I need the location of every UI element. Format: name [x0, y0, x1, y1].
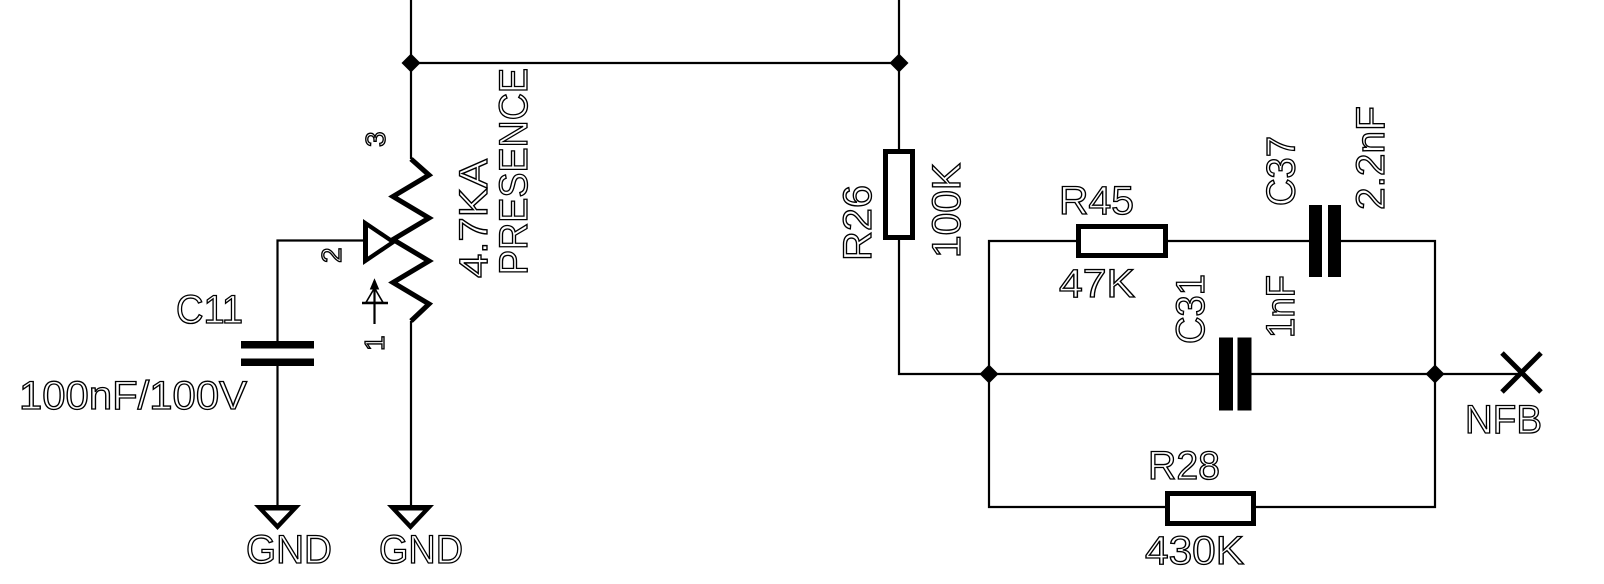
junction dot C (989,374) [980, 365, 999, 384]
wire pot pin2 to C11 [278, 241, 364, 342]
svg-text:R28: R28 [1148, 444, 1220, 488]
wire top-left vertical [410, 0, 412, 159]
wire top branch right [1341, 241, 1435, 374]
svg-text:3: 3 [360, 131, 391, 147]
wire R26 bottom to middle junction [899, 240, 989, 374]
svg-text:C11: C11 [176, 288, 243, 332]
svg-text:47K: 47K [1059, 262, 1135, 306]
wire top-right vertical [898, 0, 900, 149]
capacitor C37 plates [1309, 205, 1341, 277]
svg-text:100nF/100V: 100nF/100V [19, 374, 247, 418]
svg-text:C37: C37 [1260, 136, 1304, 206]
wire middle branch right [1251, 373, 1521, 375]
svg-text:GND: GND [379, 528, 463, 572]
wire middle branch left [989, 373, 1219, 375]
wire bottom branch left [989, 374, 1165, 507]
node NFB pin marker X [1502, 353, 1541, 392]
ground symbol left [254, 505, 301, 530]
svg-text:100K: 100K [925, 163, 969, 258]
wire top horizontal [411, 62, 899, 64]
svg-text:4.7KA: 4.7KA [452, 159, 496, 278]
ground symbol right [387, 505, 434, 530]
junction dot D (1435,374) [1426, 365, 1445, 384]
potentiometer taper marker [362, 280, 388, 325]
junction dot B (899,63) [890, 54, 909, 73]
svg-text:NFB: NFB [1465, 398, 1542, 442]
svg-text:R26: R26 [836, 185, 880, 261]
junction dot A (411,63) [402, 54, 421, 73]
resistor R45 body [1079, 227, 1166, 256]
svg-text:R45: R45 [1059, 179, 1134, 223]
svg-text:430K: 430K [1145, 529, 1244, 573]
wire bottom branch right [1256, 374, 1435, 507]
resistor R28 body [1168, 494, 1254, 524]
wire pot pin1 to GND [410, 321, 412, 505]
svg-text:PRESENCE: PRESENCE [492, 68, 536, 275]
svg-text:C31: C31 [1169, 274, 1213, 344]
wire top branch left [989, 241, 1076, 374]
svg-text:1nF: 1nF [1259, 275, 1303, 338]
capacitor C11 plates [241, 341, 314, 366]
svg-text:2.2nF: 2.2nF [1349, 106, 1393, 210]
potentiometer R? 4.7KA PRESENCE zigzag [393, 159, 429, 321]
capacitor C31 plates [1219, 338, 1252, 411]
wire top branch R45 to C37 [1168, 240, 1309, 242]
svg-text:GND: GND [246, 528, 332, 572]
resistor R26 body [886, 152, 913, 238]
potentiometer wiper arrow [363, 219, 397, 265]
wire C11 to GND [276, 366, 278, 505]
svg-text:2: 2 [316, 247, 347, 263]
svg-text:1: 1 [359, 335, 390, 351]
